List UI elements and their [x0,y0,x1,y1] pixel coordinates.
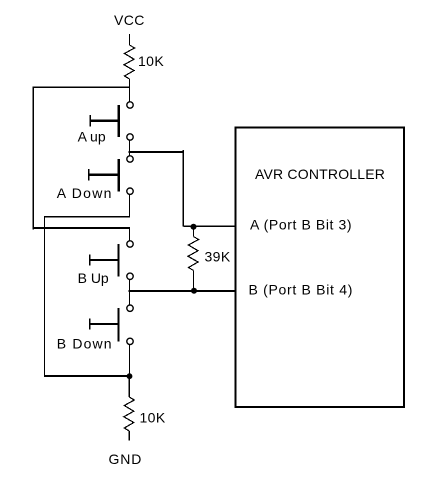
svg-text:GND: GND [109,451,143,467]
svg-text:AVR CONTROLLER: AVR CONTROLLER [255,166,385,182]
svg-text:39K: 39K [205,248,231,264]
svg-text:B (Port B Bit 4): B (Port B Bit 4) [249,282,354,298]
wire node B horizontal (thick) to AVR box [129,290,236,292]
switch S4 "B Down" [90,305,134,345]
switch S1 "A up" [90,102,133,140]
wire between S3 bottom and S4 top terminals [129,280,131,305]
wire horizontal over to left return rail [45,216,131,218]
junction dot bottom rail [127,373,133,379]
junction dot node B (39K bottom) [191,288,197,294]
svg-text:A Down: A Down [57,185,113,201]
wire between S1 bottom and S2 top terminals [129,140,131,155]
wire VCC rail top horizontal [33,86,130,88]
wire from VCC rail down to A up top terminal [129,87,131,101]
svg-text:B Down: B Down [57,336,113,352]
junction dot node A (39K top) [191,224,197,230]
wire node A vertical down [182,150,184,226]
svg-text:VCC: VCC [114,12,145,28]
svg-text:A (Port B Bit 3): A (Port B Bit 3) [250,217,352,233]
wire from S2 bottom terminal down [129,195,131,217]
wire bottom return horizontal [45,375,130,377]
resistor R1 10K (VCC pullup) [124,34,135,88]
wire VCC rail to B switches (thick horizontal) [33,227,130,229]
wire VCC rail left vertical [32,87,34,230]
wire left return rail vertical [44,216,46,377]
svg-text:10K: 10K [138,53,164,69]
svg-text:A up: A up [78,129,106,145]
wire down to B Up top terminal [129,228,131,240]
wire node A horizontal to AVR box [183,225,234,227]
wire node A horizontal (thick) to the right [129,151,185,153]
switch S2 "A Down" [88,156,133,195]
resistor R2 39K (between node A and node B) [188,228,199,290]
resistor R3 10K (GND pulldown) [124,376,135,440]
switch S3 "B Up" [90,241,134,280]
svg-text:B Up: B Up [78,270,109,286]
svg-text:10K: 10K [140,409,166,425]
wire from S4 bottom terminal down [129,345,131,377]
AVR controller box U1 [236,128,405,407]
